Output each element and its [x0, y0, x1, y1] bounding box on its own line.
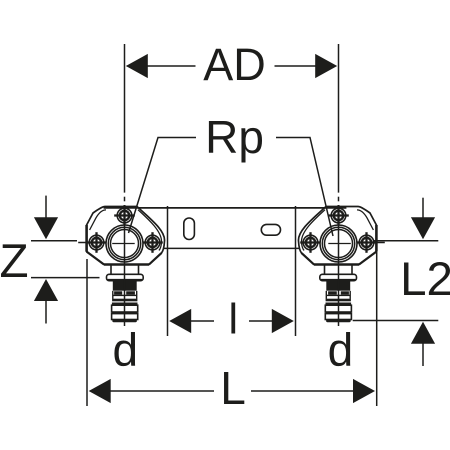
- elbow fitting left: [78, 205, 164, 322]
- fixing slot oval: [261, 224, 280, 235]
- svg-text:d: d: [113, 324, 139, 376]
- svg-text:L2: L2: [400, 253, 450, 306]
- svg-text:Z: Z: [0, 235, 29, 288]
- dimension Z: [0, 196, 100, 324]
- mounting plate bottom edge: [161, 247, 316, 249]
- dimension L: [87, 252, 377, 414]
- label Rp with leaders: [129, 111, 334, 236]
- mounting plate top edge: [104, 207, 347, 209]
- svg-text:l: l: [229, 296, 239, 344]
- svg-text:Rp: Rp: [205, 111, 264, 163]
- fixing slot vertical: [184, 218, 195, 240]
- dimension l: [168, 206, 296, 344]
- centerline left: [124, 44, 126, 326]
- svg-text:AD: AD: [203, 39, 266, 90]
- elbow fitting right (mirrored): [298, 205, 384, 322]
- svg-text:L: L: [220, 362, 246, 414]
- centerline right: [338, 44, 340, 326]
- dimension AD: [126, 39, 337, 90]
- svg-text:d: d: [328, 324, 354, 376]
- dimension L2: [353, 198, 450, 366]
